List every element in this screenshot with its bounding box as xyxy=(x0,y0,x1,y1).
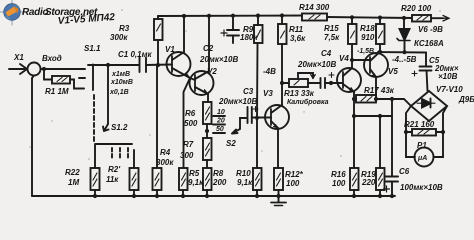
wire R15 to V4 collector xyxy=(351,44,353,68)
svg-text:R7: R7 xyxy=(183,140,194,149)
svg-text:R6: R6 xyxy=(185,109,196,118)
top rail xyxy=(158,16,443,19)
svg-text:V4: V4 xyxy=(339,54,349,63)
svg-text:S2: S2 xyxy=(226,139,236,148)
svg-text:R1 1М: R1 1М xyxy=(45,87,69,96)
switch S2 contacts xyxy=(213,116,225,133)
wire R5 top xyxy=(184,78,191,168)
capacitor C6 xyxy=(384,177,399,197)
node R13 tap xyxy=(280,81,284,85)
label R11 3,6k xyxy=(289,25,306,43)
wire R9 top xyxy=(257,16,259,25)
resistor R5 xyxy=(179,168,188,190)
resistor R18 xyxy=(376,24,385,44)
wire R2' bottom xyxy=(133,190,135,196)
label C6 xyxy=(399,167,443,192)
capacitor C2 xyxy=(221,16,239,43)
svg-text:20мк×10В: 20мк×10В xyxy=(199,55,238,64)
svg-text:180к: 180к xyxy=(240,33,258,42)
label C4 xyxy=(297,49,336,69)
label R7 300 xyxy=(180,140,194,160)
label R8 200 xyxy=(212,169,227,187)
svg-text:V6 -9В: V6 -9В xyxy=(418,25,443,34)
rail node R15 xyxy=(350,15,354,19)
node V5 base tap xyxy=(350,58,354,62)
logo crosshair xyxy=(0,0,25,25)
svg-text:R2': R2' xyxy=(108,165,121,174)
svg-text:R4: R4 xyxy=(160,148,171,157)
transistor V2 xyxy=(190,16,214,102)
wire R4 top xyxy=(156,65,158,168)
node S1.2 branch xyxy=(106,63,110,67)
rail node R9 xyxy=(256,14,260,18)
label R16 100 xyxy=(331,170,346,188)
mechanical link dashed xyxy=(93,95,95,141)
resistor R9 xyxy=(254,25,263,43)
wire R13 in xyxy=(282,82,289,84)
node V3 base xyxy=(255,116,259,120)
svg-text:20мк×10В: 20мк×10В xyxy=(297,60,336,69)
logo text xyxy=(22,7,98,18)
rail node V1 xyxy=(182,14,186,18)
label R6 500 xyxy=(184,109,198,128)
svg-text:220: 220 xyxy=(361,178,376,187)
transistor V3 xyxy=(265,105,289,168)
potentiometer R13 xyxy=(289,73,316,87)
wire V4 emitter down xyxy=(353,92,355,168)
wiper arrow S1.2 xyxy=(103,124,109,131)
svg-text:R21 160: R21 160 xyxy=(404,120,435,129)
bottom rail xyxy=(32,195,395,197)
resistor R20 xyxy=(412,15,431,22)
wire y116 xyxy=(354,115,392,117)
svg-text:×10В: ×10В xyxy=(438,72,458,81)
label R10 9,1k xyxy=(236,169,253,187)
resistor R1 xyxy=(52,76,70,84)
svg-text:R15: R15 xyxy=(324,24,339,33)
svg-text:R14 300: R14 300 xyxy=(299,3,330,12)
svg-text:V3: V3 xyxy=(263,89,273,98)
svg-text:9,1к: 9,1к xyxy=(188,178,204,187)
svg-text:S1.1: S1.1 xyxy=(84,44,101,53)
label V6 -9V xyxy=(414,25,444,48)
svg-text:300: 300 xyxy=(180,151,194,160)
svg-text:Вход: Вход xyxy=(42,54,62,63)
svg-text:100: 100 xyxy=(332,179,346,188)
wire S1.1 to C1 xyxy=(93,64,139,66)
label R15 7,5k xyxy=(324,24,340,42)
node R21 right xyxy=(441,130,445,134)
svg-text:200: 200 xyxy=(212,178,227,187)
svg-text:7,5к: 7,5к xyxy=(324,33,340,42)
svg-text:300к: 300к xyxy=(110,33,128,42)
switch S1.1 xyxy=(88,65,98,91)
resistor R14 xyxy=(302,14,327,21)
wire input down xyxy=(32,76,34,197)
svg-text:R13 33к: R13 33к xyxy=(284,89,315,98)
svg-text:V1: V1 xyxy=(165,45,175,54)
wire R7-R8 xyxy=(206,160,208,168)
wire R22 top xyxy=(94,144,96,168)
resistor R17 xyxy=(354,95,376,103)
meter P1 xyxy=(415,148,434,167)
capacitor C4 xyxy=(321,73,335,89)
node V6 bottom xyxy=(402,50,406,54)
svg-text:100мк×10В: 100мк×10В xyxy=(400,183,443,192)
svg-text:C1 0,1мк: C1 0,1мк xyxy=(118,50,152,59)
rail node V6 xyxy=(402,16,406,20)
wire R5 bottom xyxy=(182,190,184,196)
wire R1 out hook xyxy=(70,80,84,89)
svg-text:C6: C6 xyxy=(399,167,410,176)
wire -4..-5V line xyxy=(378,51,426,54)
wire R11 top xyxy=(281,16,283,25)
wire R10 top xyxy=(256,118,258,168)
label R12* 100 xyxy=(285,170,304,188)
svg-text:100: 100 xyxy=(286,179,300,188)
wire C4 to V4 base xyxy=(325,82,343,84)
label C5 xyxy=(429,56,459,81)
ground xyxy=(271,196,286,206)
wire C6 column xyxy=(391,99,393,176)
wiper S2 xyxy=(232,118,246,134)
svg-text:V2: V2 xyxy=(207,67,217,76)
capacitor C3 xyxy=(248,107,259,124)
svg-text:500: 500 xyxy=(184,119,198,128)
wire R4 bottom xyxy=(156,190,158,196)
logo globe icon xyxy=(4,4,21,21)
node C6 top xyxy=(390,97,394,101)
resistor R15 xyxy=(348,24,357,44)
resistor R16 xyxy=(350,168,359,190)
svg-text:10: 10 xyxy=(217,109,225,116)
transistor V1 xyxy=(167,16,191,78)
svg-text:R16: R16 xyxy=(331,170,346,179)
rail node R18 xyxy=(378,16,382,20)
svg-text:20: 20 xyxy=(216,118,225,125)
contact stubs dashed xyxy=(112,148,128,159)
node V5 collector xyxy=(378,50,382,54)
node V4 base xyxy=(329,81,333,85)
svg-text:Д9Б: Д9Б xyxy=(458,95,474,104)
title V1-V5 MP42 xyxy=(57,12,115,27)
resistor R6 xyxy=(203,102,212,124)
svg-text:-4В: -4В xyxy=(263,67,276,76)
svg-text:R3: R3 xyxy=(119,24,130,33)
paper speckles xyxy=(29,9,441,187)
node V1 base xyxy=(156,63,160,67)
wire R19 bottom xyxy=(379,190,381,196)
svg-text:R17 43к: R17 43к xyxy=(364,86,395,95)
svg-text:50: 50 xyxy=(216,126,224,133)
wire S1.2 drop xyxy=(107,65,109,124)
svg-text:1М: 1М xyxy=(68,178,79,187)
svg-text:R8: R8 xyxy=(213,169,224,178)
svg-text:х1мВ: х1мВ xyxy=(111,71,130,78)
svg-text:R12*: R12* xyxy=(285,170,304,179)
wire R12 bottom xyxy=(278,190,280,196)
wire V5 base xyxy=(352,59,370,61)
resistor R7 xyxy=(203,138,212,160)
svg-text:9,1к: 9,1к xyxy=(237,178,253,187)
svg-text:300к: 300к xyxy=(156,158,174,167)
svg-text:S1.2: S1.2 xyxy=(111,123,128,132)
svg-text:х10мВ: х10мВ xyxy=(110,79,133,86)
label R18 910 xyxy=(360,24,375,42)
transistor V5 xyxy=(364,53,388,99)
bridge V7-V10 xyxy=(411,91,447,121)
resistor R22 xyxy=(91,168,100,190)
wire C1 to V1 base xyxy=(146,64,172,67)
label R5 9,1k xyxy=(188,169,204,187)
label R4 300k xyxy=(156,148,174,167)
resistor R3 xyxy=(154,19,163,40)
svg-text:X1: X1 xyxy=(13,53,24,62)
node R6R7 xyxy=(205,129,209,133)
capacitor C5 xyxy=(412,53,432,92)
label R3 300k xyxy=(110,24,130,42)
rail arrow xyxy=(443,16,449,22)
zener V6 xyxy=(397,18,410,52)
bottom rail nodes xyxy=(93,194,394,198)
svg-text:C2: C2 xyxy=(203,44,214,53)
contact tick middle xyxy=(79,77,85,79)
wire R17 to bridge xyxy=(376,99,411,106)
node y116 R19 xyxy=(378,114,382,118)
node input xyxy=(42,67,46,71)
wire R9 to V3 base xyxy=(256,43,259,118)
svg-text:R20 100: R20 100 xyxy=(401,4,432,13)
rail node V2 xyxy=(207,14,211,18)
wire R11 to V3 collector xyxy=(281,44,283,105)
svg-text:R18: R18 xyxy=(360,24,375,33)
wire bridge right drop xyxy=(434,106,448,157)
wire R1 drop xyxy=(44,69,52,80)
svg-text:V5: V5 xyxy=(388,67,398,76)
wire R2' top xyxy=(133,150,135,168)
resistor R21 xyxy=(406,129,443,136)
contact bar S1.2 xyxy=(96,143,132,145)
label C2 xyxy=(199,44,238,64)
svg-text:КС168А: КС168А xyxy=(414,39,444,48)
svg-text:C3: C3 xyxy=(243,87,254,96)
wire R13 out xyxy=(308,82,320,84)
node R21 left xyxy=(404,130,408,134)
node R17 right xyxy=(374,97,378,101)
svg-text:V7-V10: V7-V10 xyxy=(436,85,463,94)
wire R6-R7 xyxy=(206,124,208,138)
svg-text:-4..-5В: -4..-5В xyxy=(392,55,417,64)
svg-text:х0,1В: х0,1В xyxy=(109,89,129,96)
label R22 1M xyxy=(65,168,80,187)
wire R18 top xyxy=(379,18,381,24)
resistor R8 xyxy=(203,168,212,190)
svg-text:Калибровка: Калибровка xyxy=(287,98,329,106)
node emitter junction xyxy=(352,97,356,101)
wire R3 top xyxy=(157,16,159,19)
svg-text:R11: R11 xyxy=(289,25,304,34)
resistor R11 xyxy=(278,24,287,44)
connector X1 xyxy=(9,63,41,76)
resistor R4 xyxy=(153,168,162,190)
label C3 xyxy=(218,87,257,106)
label R9 180k xyxy=(240,25,258,42)
svg-text:11к: 11к xyxy=(106,175,119,184)
resistor R12 xyxy=(274,168,283,190)
wire R8 bottom xyxy=(206,190,208,196)
resistor R10 xyxy=(253,168,262,190)
wire R19 top xyxy=(379,116,381,168)
wire R22 bottom xyxy=(94,190,96,196)
resistor R19 xyxy=(376,168,385,190)
capacitor C1 xyxy=(140,58,147,73)
node y116 left xyxy=(352,114,356,118)
label R19 220 xyxy=(361,170,376,187)
svg-text:910: 910 xyxy=(361,33,375,42)
svg-text:R10: R10 xyxy=(236,169,251,178)
wire input to S1.1 xyxy=(41,68,86,70)
svg-text:3,6к: 3,6к xyxy=(290,34,306,43)
rail node R11 xyxy=(280,13,284,17)
svg-text:Р1: Р1 xyxy=(417,141,427,150)
rail node C2 xyxy=(231,14,235,18)
svg-text:R5: R5 xyxy=(189,169,200,178)
svg-text:C4: C4 xyxy=(321,49,332,58)
wire R3 bottom xyxy=(157,40,159,65)
label R2' 11k xyxy=(106,165,121,184)
wire R16 bottom xyxy=(353,190,355,196)
wire R10 bottom xyxy=(256,190,258,196)
wire bridge left drop xyxy=(406,106,415,157)
svg-text:R22: R22 xyxy=(65,168,80,177)
wire R15 top xyxy=(351,17,353,24)
transistor V4 xyxy=(337,68,361,92)
svg-text:μА: μА xyxy=(417,155,427,162)
svg-text:20мк×10В: 20мк×10В xyxy=(218,97,257,106)
wire R18 bottom xyxy=(379,44,381,52)
resistor R2' xyxy=(130,168,139,190)
wire C3 to V3 base xyxy=(252,117,271,119)
